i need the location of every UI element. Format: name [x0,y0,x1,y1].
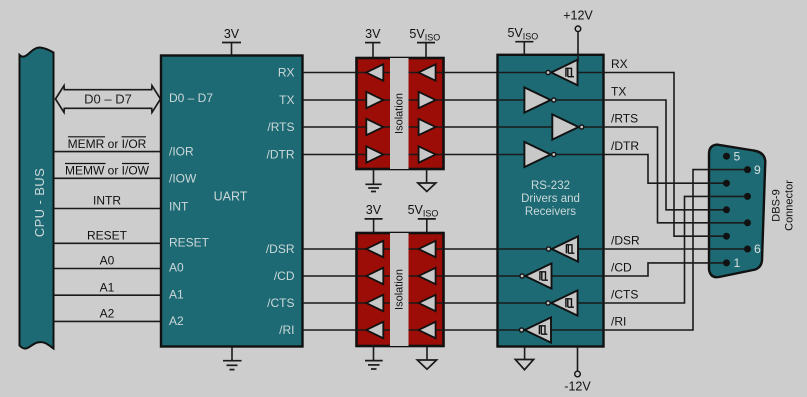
svg-text:5: 5 [734,149,741,163]
wire isolation RX to RS-232 [409,72,498,74]
svg-text:MEMR or I/OR: MEMR or I/OR [68,137,147,151]
+12V terminal circle [575,26,581,32]
DB9 pin 6 [744,246,751,253]
wire UART /CTS to isolation [303,302,391,304]
svg-text:/RTS: /RTS [267,120,294,134]
ISO1 isolated ground symbol [418,183,436,192]
svg-text:3V: 3V [365,27,381,41]
overline MEMR [68,136,105,138]
svg-text:RESET: RESET [87,229,128,243]
receiver /CD [525,263,551,288]
ISO1 ground symbol [365,184,381,191]
svg-text:TX: TX [279,93,294,107]
wire /CTS out [604,196,748,303]
+12V terminal stub [577,32,579,55]
wire isolation TX to RS-232 [409,99,498,101]
isolation block ISO2 [357,233,444,346]
wire MEMR [54,151,162,153]
wire isolation /CD to RS-232 [409,275,498,277]
DB9 pin 3 [723,206,730,213]
receiver /RI [525,317,551,342]
ISO2 buffer /CTS right-col [419,295,436,311]
UART 3V supply bar [222,42,241,44]
svg-text:RX: RX [278,66,295,80]
RS-232 +12V internal stub [577,55,579,62]
svg-text:9: 9 [754,163,761,177]
ISO2 buffer /RI right-col [419,322,436,338]
wire /DTR out [604,155,727,184]
ISO1 ground stub [373,169,375,184]
-12V terminal stub [577,347,579,372]
ISO2 buffer /DSR left-col [366,241,383,257]
svg-text:3V: 3V [224,27,240,41]
wire TX out [604,100,727,210]
wire A1 [54,294,162,296]
wire MEMW [54,177,162,179]
wire isolation /RTS to RS-232 [409,126,498,128]
wire isolation /DSR to RS-232 [409,248,498,250]
DB9 connector body [709,145,765,278]
-12V terminal circle [575,371,581,377]
svg-text:/RI: /RI [279,323,294,337]
ISO1 3V bar [365,42,381,44]
ISO2 5Viso stub [426,219,428,233]
svg-text:A1: A1 [100,280,115,294]
svg-text:TX: TX [611,85,626,99]
svg-text:INT: INT [169,200,189,214]
RS-232 block U2 [498,55,604,347]
svg-text:RX: RX [611,57,628,71]
ISO1 buffer TX right-col [419,92,436,108]
svg-text:+12V: +12V [563,9,593,23]
wire A2 [54,320,162,322]
wire RESET [54,242,162,244]
wire /RTS out [604,127,748,223]
svg-text:Isolation: Isolation [393,93,405,134]
svg-text:RS-232: RS-232 [531,180,570,192]
svg-text:3V: 3V [366,203,382,217]
driver /DTR [524,142,550,167]
svg-text:5VISO: 5VISO [409,27,440,43]
svg-text:5VISO: 5VISO [408,203,439,219]
bus arrow D0-D7 [56,86,161,113]
ISO1 internal wires [357,73,444,155]
svg-text:/IOW: /IOW [169,171,197,185]
svg-text:MEMW or I/OW: MEMW or I/OW [65,164,150,178]
ISO2 buffer /CD right-col [419,268,436,284]
DB9 pin 4 [723,180,730,187]
receiver RX [551,60,577,85]
RS-232 5Viso bar [515,41,533,43]
DB9 pin 2 [723,233,730,240]
ISO2 buffer /CTS left-col [366,295,383,311]
ISO1 5Viso bar [417,42,435,44]
wire UART TX to isolation [303,99,391,101]
receiver /CTS [551,290,577,315]
wire /DSR out [604,248,748,250]
ISO2 isolated ground stub [426,346,428,360]
ISO1 isolated ground stub [426,169,428,183]
svg-text:A2: A2 [169,314,184,328]
svg-text:/CD: /CD [274,269,295,283]
DB9 pin 7 [744,219,751,226]
svg-text:5VISO: 5VISO [507,26,538,42]
ISO1 3V stub [372,43,374,58]
DB9 pin 5 [723,153,730,160]
svg-text:DBS-9: DBS-9 [771,189,783,221]
ISO2 5Viso bar [418,218,436,220]
svg-text:/CTS: /CTS [267,296,294,310]
ISO2 buffer /RI left-col [366,322,383,338]
svg-text:CPU - BUS: CPU - BUS [32,168,47,237]
wire INTR [54,208,162,210]
svg-text:INTR: INTR [93,194,121,208]
svg-text:Connector: Connector [784,180,796,231]
DB9 pin 8 [744,193,751,200]
wire UART /DSR to isolation [303,248,391,250]
DB9 pin 9 [744,166,751,173]
wire UART /RTS to isolation [303,126,391,128]
ISO1 buffer TX left-col [366,92,383,108]
CPU bus bar [20,47,54,348]
isolation block ISO1 [357,58,444,169]
ISO1 buffer /DTR right-col [419,146,436,162]
wire isolation /CTS to RS-232 [409,302,498,304]
svg-text:6: 6 [754,242,761,256]
svg-text:D0 – D7: D0 – D7 [84,92,132,107]
overline MEMW [65,163,106,165]
UART 3V supply stub [231,43,233,56]
svg-text:Receivers: Receivers [525,206,576,218]
svg-text:/CD: /CD [611,261,632,275]
ISO2 ground stub [373,346,375,361]
svg-text:A2: A2 [100,307,115,321]
ISO2 ground symbol [365,361,383,369]
UART block U1 [161,56,303,347]
ISO2 barrier strip [390,233,409,346]
wire /CD out [604,263,727,276]
ISO2 buffer /CD left-col [366,268,383,284]
RS-232 5Viso stub [523,42,525,55]
svg-text:/CTS: /CTS [611,288,638,302]
ISO1 buffer RX left-col [366,64,383,80]
UART ground stub [231,347,233,361]
svg-text:/IOR: /IOR [169,145,194,159]
overline I/OW [122,163,149,165]
svg-text:UART: UART [214,190,248,204]
ISO1 buffer /DTR left-col [366,146,383,162]
svg-text:A0: A0 [100,254,115,268]
wire isolation /DTR to RS-232 [409,154,498,156]
ISO1 buffer /RTS right-col [419,119,436,135]
svg-text:Isolation: Isolation [393,269,405,310]
RS-232 internal wires [498,73,604,331]
svg-text:Drivers and: Drivers and [521,193,580,205]
svg-text:/DTR: /DTR [267,148,295,162]
ISO2 3V stub [373,219,375,233]
wire isolation /RI to RS-232 [409,329,498,331]
RS-232 isolated ground symbol [515,360,533,370]
overline I/OR [122,136,147,138]
svg-text:/RTS: /RTS [611,112,638,126]
driver /RTS [552,114,578,139]
wire /RI out [604,170,748,330]
svg-text:/DSR: /DSR [611,234,640,248]
wire RX out [604,73,727,237]
driver TX [524,87,550,112]
ISO2 3V bar [365,218,383,220]
ISO1 5Viso stub [425,43,427,58]
svg-text:/DSR: /DSR [266,242,295,256]
svg-text:RESET: RESET [169,236,210,250]
DB9 pin 1 [723,259,730,266]
svg-text:-12V: -12V [564,380,591,394]
ISO2 buffer /DSR right-col [419,241,436,257]
RS-232 isolated ground stub [524,347,526,360]
svg-text:/RI: /RI [611,315,626,329]
svg-text:D0 – D7: D0 – D7 [169,91,213,105]
ISO1 barrier strip [390,58,409,169]
ISO1 buffer /RTS left-col [366,119,383,135]
svg-text:A0: A0 [169,261,184,275]
wire UART /CD to isolation [303,275,391,277]
svg-text:/DTR: /DTR [611,139,639,153]
ISO2 internal wires [357,249,444,330]
wire UART RX to isolation [303,72,391,74]
wire UART /RI to isolation [303,329,391,331]
wire UART /DTR to isolation [303,154,391,156]
UART ground symbol [223,361,242,370]
ISO1 buffer RX right-col [419,64,436,80]
receiver /DSR [552,236,578,261]
wire A0 [54,268,162,270]
ISO2 isolated ground symbol [417,360,436,369]
svg-text:1: 1 [734,256,741,270]
svg-text:A1: A1 [169,288,184,302]
